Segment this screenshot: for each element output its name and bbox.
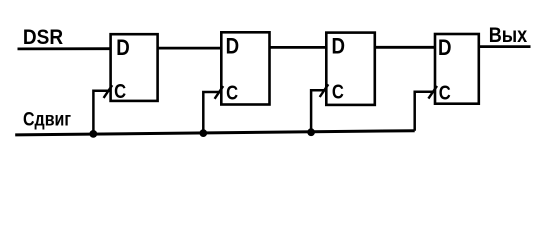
- svg-text:D: D: [226, 34, 240, 59]
- D flip-flop U2 body: [221, 32, 269, 104]
- dynamic input arrow U2: [215, 86, 224, 99]
- junction dot J1: [89, 130, 97, 138]
- svg-text:Вых: Вых: [489, 23, 528, 47]
- wire U3 Q to U4 D: [375, 46, 435, 49]
- svg-text:D: D: [116, 35, 130, 60]
- wire clock branch U1: [93, 91, 110, 134]
- svg-text:C: C: [332, 81, 344, 104]
- svg-text:DSR: DSR: [23, 26, 63, 49]
- wire DSR input: [18, 47, 111, 50]
- junction dot J3: [307, 128, 315, 136]
- dynamic input arrow U3: [320, 84, 329, 97]
- junction dot J2: [199, 129, 207, 137]
- svg-text:Сдвиг: Сдвиг: [23, 110, 71, 131]
- svg-text:C: C: [114, 80, 126, 103]
- wire clock branch U4: [415, 92, 435, 131]
- dynamic input arrow U1: [104, 85, 113, 98]
- wire Сдвиг bus: [15, 131, 415, 135]
- svg-text:D: D: [438, 35, 452, 60]
- wire clock branch U3: [311, 90, 326, 132]
- svg-text:C: C: [439, 81, 451, 104]
- D flip-flop U4 body: [435, 34, 479, 104]
- D flip-flop U1 body: [111, 34, 158, 101]
- svg-text:D: D: [332, 34, 346, 59]
- wire clock branch U2: [203, 92, 221, 133]
- D flip-flop U3 body: [326, 33, 375, 105]
- wire U1 Q to U2 D: [158, 47, 222, 50]
- dynamic input arrow U4: [428, 86, 437, 99]
- wire U4 Q output: [479, 45, 531, 48]
- wire U2 Q to U3 D: [270, 46, 328, 49]
- svg-text:C: C: [226, 81, 238, 104]
